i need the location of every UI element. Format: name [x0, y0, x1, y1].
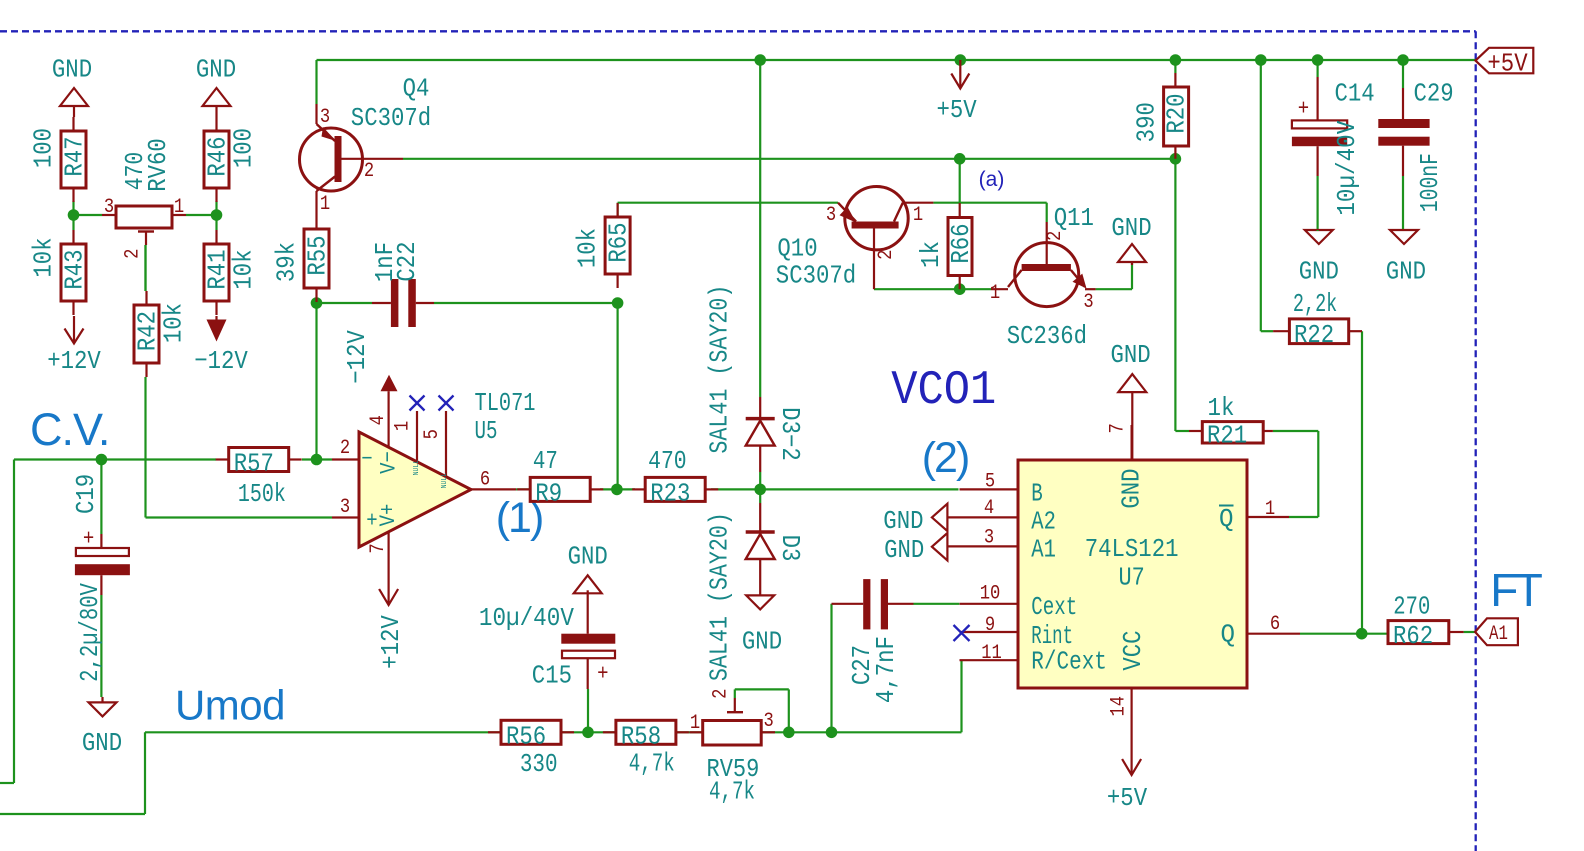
svg-text:−: −	[361, 447, 372, 472]
svg-text:390: 390	[1132, 102, 1162, 142]
svg-text:Q: Q	[1221, 619, 1236, 649]
svg-text:R66: R66	[946, 223, 976, 263]
svg-text:−12V: −12V	[342, 330, 372, 384]
svg-text:150k: 150k	[238, 479, 286, 509]
svg-text:270: 270	[1393, 591, 1430, 621]
svg-text:1: 1	[990, 282, 1000, 305]
svg-text:R/Cext: R/Cext	[1031, 647, 1107, 677]
svg-text:D3−2: D3−2	[775, 407, 805, 461]
svg-text:4,7k: 4,7k	[709, 777, 755, 807]
svg-text:47: 47	[533, 446, 558, 476]
svg-text:GND: GND	[1111, 213, 1151, 243]
svg-text:R20: R20	[1162, 93, 1192, 133]
svg-text:A2: A2	[1031, 506, 1056, 536]
svg-text:Q: Q	[1219, 504, 1234, 534]
svg-text:10: 10	[980, 582, 1001, 605]
svg-text:R58: R58	[621, 721, 661, 751]
svg-text:1: 1	[1265, 498, 1275, 521]
svg-text:R9: R9	[535, 478, 562, 508]
svg-text:R23: R23	[650, 478, 690, 508]
svg-text:V+: V+	[376, 504, 401, 527]
svg-text:GND: GND	[196, 54, 236, 84]
svg-text:C22: C22	[392, 241, 422, 281]
svg-text:D3: D3	[775, 535, 805, 562]
svg-text:Q4: Q4	[403, 73, 430, 103]
svg-text:+12V: +12V	[47, 346, 101, 376]
svg-text:100nF: 100nF	[1415, 153, 1445, 212]
svg-text:5: 5	[421, 429, 444, 439]
svg-text:100: 100	[29, 128, 59, 168]
svg-text:GND: GND	[1299, 256, 1339, 286]
svg-text:VCC: VCC	[1118, 630, 1148, 670]
svg-text:+5V: +5V	[1107, 783, 1148, 813]
svg-text:C14: C14	[1335, 79, 1375, 109]
svg-text:GND: GND	[568, 542, 608, 572]
svg-text:+5V: +5V	[937, 95, 978, 125]
svg-text:GND: GND	[52, 54, 92, 84]
svg-text:V−: V−	[377, 451, 402, 474]
svg-text:4,7nF: 4,7nF	[871, 636, 901, 703]
svg-text:B: B	[1031, 479, 1043, 509]
svg-text:74LS121: 74LS121	[1085, 534, 1179, 564]
svg-text:TL071: TL071	[475, 388, 536, 418]
svg-text:1k: 1k	[1208, 393, 1235, 423]
svg-text:6: 6	[480, 468, 490, 491]
svg-text:2: 2	[875, 250, 898, 260]
svg-text:5: 5	[985, 470, 995, 493]
svg-text:C15: C15	[532, 660, 572, 690]
svg-text:2: 2	[122, 249, 145, 259]
svg-text:4: 4	[367, 415, 390, 425]
svg-text:FT: FT	[1490, 564, 1543, 616]
svg-text:GND: GND	[1386, 256, 1426, 286]
svg-text:C19: C19	[71, 474, 101, 514]
svg-text:R21: R21	[1207, 420, 1247, 450]
svg-text:3: 3	[320, 106, 330, 129]
svg-text:7: 7	[367, 543, 390, 553]
svg-text:SC307d: SC307d	[351, 103, 431, 133]
svg-text:2: 2	[710, 689, 733, 699]
svg-text:1: 1	[392, 421, 415, 431]
svg-text:GND: GND	[1111, 340, 1151, 370]
svg-text:U7: U7	[1118, 563, 1144, 593]
svg-text:2: 2	[364, 160, 374, 183]
svg-text:10k: 10k	[229, 249, 259, 289]
svg-text:470: 470	[648, 446, 687, 476]
svg-text:SAL41 (SAY20): SAL41 (SAY20)	[705, 512, 735, 681]
svg-text:10k: 10k	[573, 228, 603, 268]
svg-text:R56: R56	[506, 721, 546, 751]
svg-text:−12V: −12V	[194, 346, 248, 376]
svg-text:14: 14	[1108, 696, 1131, 717]
svg-text:R65: R65	[604, 222, 634, 262]
svg-text:NULL: NULL	[413, 459, 421, 475]
svg-text:7: 7	[1107, 423, 1130, 433]
svg-text:1: 1	[913, 204, 923, 227]
svg-text:+: +	[597, 662, 608, 687]
svg-text:+5V: +5V	[1487, 49, 1528, 79]
svg-text:R57: R57	[234, 448, 274, 478]
svg-text:100: 100	[229, 128, 259, 168]
svg-text:NULL: NULL	[441, 472, 449, 488]
svg-text:C29: C29	[1414, 79, 1454, 109]
svg-text:+12V: +12V	[376, 615, 406, 669]
svg-text:9: 9	[985, 614, 995, 637]
svg-text:GND: GND	[742, 626, 782, 656]
svg-text:+: +	[1298, 97, 1309, 122]
svg-text:10µ/40V: 10µ/40V	[1332, 120, 1362, 215]
svg-text:3: 3	[984, 526, 994, 549]
svg-text:2,2µ/80V: 2,2µ/80V	[75, 583, 105, 682]
svg-text:Q11: Q11	[1054, 203, 1094, 233]
svg-text:GND: GND	[883, 506, 923, 536]
svg-text:3: 3	[764, 710, 774, 733]
svg-text:2,2k: 2,2k	[1293, 289, 1337, 319]
svg-text:GND: GND	[82, 728, 122, 758]
svg-text:3: 3	[1083, 291, 1093, 314]
svg-text:SC236d: SC236d	[1007, 321, 1087, 351]
svg-text:1k: 1k	[916, 241, 946, 268]
svg-text:R55: R55	[303, 235, 333, 275]
svg-text:3: 3	[340, 496, 350, 519]
svg-text:RV60: RV60	[143, 138, 173, 192]
svg-text:Q10: Q10	[777, 233, 817, 263]
svg-text:SAL41 (SAY20): SAL41 (SAY20)	[705, 285, 735, 454]
svg-text:Umod: Umod	[175, 682, 285, 729]
svg-text:10k: 10k	[159, 303, 189, 343]
svg-text:330: 330	[520, 749, 558, 779]
svg-text:R43: R43	[60, 249, 90, 289]
svg-text:(2): (2)	[922, 434, 969, 482]
svg-text:10k: 10k	[29, 237, 59, 277]
svg-text:SC307d: SC307d	[776, 260, 856, 290]
svg-text:R62: R62	[1393, 621, 1433, 651]
svg-text:A1: A1	[1489, 623, 1508, 646]
svg-text:3: 3	[826, 204, 836, 227]
svg-text:3: 3	[104, 196, 114, 219]
svg-text:6: 6	[1270, 613, 1280, 636]
svg-text:GND: GND	[1117, 468, 1147, 508]
svg-text:1: 1	[690, 712, 700, 735]
svg-text:A1: A1	[1031, 535, 1056, 565]
svg-text:1: 1	[174, 196, 184, 219]
svg-text:GND: GND	[884, 535, 924, 565]
svg-text:R47: R47	[60, 136, 90, 176]
svg-text:10µ/40V: 10µ/40V	[479, 603, 574, 633]
svg-text:2: 2	[340, 437, 350, 460]
svg-text:R22: R22	[1294, 320, 1334, 350]
svg-text:1: 1	[320, 193, 330, 216]
svg-text:VCO1: VCO1	[891, 364, 996, 418]
svg-text:C.V.: C.V.	[30, 404, 109, 455]
svg-text:4: 4	[984, 497, 994, 520]
svg-text:39k: 39k	[272, 242, 302, 282]
svg-text:Cext: Cext	[1031, 592, 1077, 622]
svg-text:U5: U5	[475, 416, 498, 446]
svg-text:11: 11	[981, 642, 1002, 665]
svg-text:4,7k: 4,7k	[629, 748, 675, 778]
svg-text:(a): (a)	[979, 168, 1005, 191]
